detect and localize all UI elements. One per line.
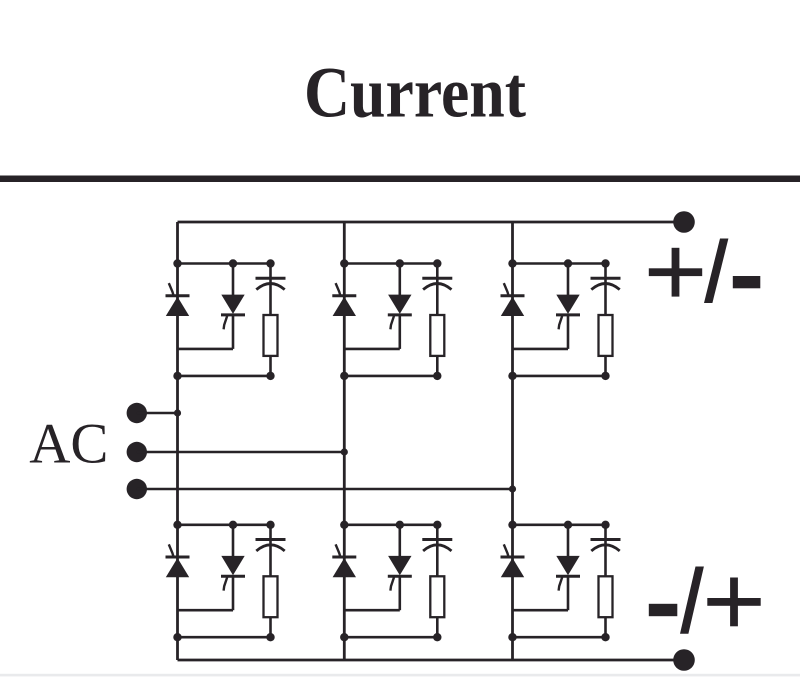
wire: negative DC rail (bottom) — [178, 659, 685, 662]
resistor cell 1 upper snubber R — [264, 315, 278, 356]
wire: cell 3 upper gate-side connector — [513, 348, 569, 351]
wire: cell 2 lower gate-side connector — [344, 609, 400, 612]
wire: cell 1 upper gate-side connector — [178, 348, 234, 351]
terminal AC phase 3 — [127, 479, 147, 499]
label "+/-" slash — [704, 239, 728, 304]
node cell 2 upper bottom bus left junction — [340, 372, 348, 380]
wire: cell 2 upper snubber lead (top) — [436, 264, 439, 316]
thyristor cell 1 lower left cathode bar — [166, 556, 190, 559]
thyristor cell 2 lower middle triangle — [388, 556, 411, 575]
node cell 1 upper top bus left junction — [173, 259, 181, 267]
thyristor cell 3 upper left cathode bar — [501, 294, 525, 297]
wire: cell 1 lower top bus — [178, 523, 271, 526]
node cell 3 upper top bus middle junction — [564, 259, 572, 267]
label "+/-" plus sign — [649, 268, 702, 276]
thyristor cell 2 upper left triangle — [333, 297, 356, 316]
wire: cell 1 upper top bus — [178, 262, 271, 265]
wire: cell 2 upper gate-side connector — [344, 348, 400, 351]
wire: cell 2 upper top bus — [344, 262, 437, 265]
label "-/+" plus sign — [707, 598, 760, 606]
node cell 1 lower top bus middle junction — [229, 521, 237, 529]
thyristor cell 3 upper middle triangle — [556, 295, 579, 314]
node AC phase 2 junction on leg 2 — [341, 448, 348, 455]
node cell 3 upper top bus left junction — [508, 259, 516, 267]
resistor cell 3 upper snubber R — [599, 315, 613, 356]
terminal DC top (+/-) — [673, 211, 695, 233]
thyristor cell 3 upper left (conducts up) gate — [504, 283, 509, 295]
thyristor cell 3 lower middle (conducts down) gate — [559, 577, 563, 590]
thyristor cell 2 lower left (conducts up) gate — [336, 544, 341, 556]
wire: cell 3 lower middle branch upper lead — [567, 525, 570, 557]
capacitor cell 2 lower snubber C plate — [422, 538, 452, 541]
wire: cell 1 upper bottom bus — [178, 375, 271, 378]
wire: cell 3 upper middle branch upper lead — [567, 264, 570, 296]
wire: cell 2 upper snubber R bottom lead — [436, 356, 439, 376]
node cell 2 lower top bus middle junction — [396, 521, 404, 529]
node cell 1 upper bottom bus right junction — [266, 372, 274, 380]
thyristor cell 2 upper middle cathode bar — [388, 313, 412, 316]
thyristor cell 3 lower left (conducts up) gate — [504, 544, 509, 556]
terminal AC phase 1 — [127, 403, 147, 423]
svg-text:AC: AC — [29, 413, 108, 476]
thyristor cell 1 lower middle (conducts down) gate — [224, 577, 228, 590]
wire: cell 1 lower snubber R bottom lead — [269, 617, 272, 637]
resistor cell 1 lower snubber R — [264, 576, 278, 617]
wire: cell 3 lower bottom bus — [513, 636, 606, 639]
label "+/-" minus sign — [733, 276, 761, 288]
thyristor cell 1 lower left (conducts up) gate — [169, 544, 174, 556]
resistor cell 2 upper snubber R — [430, 315, 444, 356]
node cell 3 lower top bus left junction — [508, 521, 516, 529]
thyristor cell 3 lower left cathode bar — [501, 556, 525, 559]
scan artifact band at bottom edge — [0, 674, 800, 677]
thyristor cell 3 upper middle (conducts down) gate — [559, 316, 563, 329]
wire: cell 1 lower middle branch lower lead — [232, 576, 235, 610]
wire: cell 2 upper middle branch upper lead — [398, 264, 401, 296]
wire: cell 1 upper snubber lead (top) — [269, 264, 272, 316]
thyristor cell 2 lower middle cathode bar — [388, 575, 412, 578]
capacitor cell 1 upper snubber C plate — [256, 277, 286, 280]
thyristor cell 1 lower middle triangle — [221, 556, 244, 575]
wire: cell 3 lower snubber R bottom lead — [604, 617, 607, 637]
thyristor cell 1 upper middle cathode bar — [221, 313, 245, 316]
wire: cell 1 lower bottom bus — [178, 636, 271, 639]
thyristor cell 3 upper left triangle — [501, 297, 524, 316]
thyristor cell 2 upper left cathode bar — [332, 294, 356, 297]
wire: cell 2 upper bottom bus — [344, 375, 437, 378]
wire: AC phase 2 line — [137, 451, 344, 454]
wire: phase leg 1 vertical — [176, 222, 179, 660]
resistor cell 3 lower snubber R — [599, 576, 613, 617]
label "-/+" minus sign — [649, 604, 678, 616]
wire: cell 1 upper snubber R bottom lead — [269, 356, 272, 376]
node cell 3 upper bottom bus right junction — [601, 372, 609, 380]
terminal DC bottom (-/+) — [673, 649, 695, 671]
thyristor cell 2 upper middle (conducts down) gate — [390, 316, 394, 329]
thyristor cell 2 upper left (conducts up) gate — [336, 283, 341, 295]
wire: cell 3 lower gate-side connector — [513, 609, 569, 612]
wire: cell 2 lower snubber lead (top) — [436, 525, 439, 577]
wire: cell 1 upper middle branch lower lead — [232, 315, 235, 349]
node cell 1 lower top bus left junction — [173, 521, 181, 529]
node AC phase 3 junction on leg 3 — [509, 485, 516, 492]
node cell 1 lower top bus right junction — [266, 521, 274, 529]
node cell 2 upper top bus middle junction — [396, 259, 404, 267]
capacitor cell 3 lower snubber C curved plate — [591, 545, 619, 551]
wire: cell 1 lower middle branch upper lead — [232, 525, 235, 557]
node cell 3 lower top bus middle junction — [564, 521, 572, 529]
capacitor cell 2 lower snubber C curved plate — [423, 545, 451, 551]
horizontal rule under title — [0, 176, 800, 183]
node cell 2 upper top bus right junction — [433, 259, 441, 267]
thyristor cell 3 lower middle cathode bar — [556, 575, 580, 578]
thyristor cell 3 upper middle cathode bar — [556, 313, 580, 316]
capacitor cell 3 lower snubber C plate — [591, 538, 621, 541]
wire: phase leg 2 vertical — [343, 222, 346, 660]
thyristor cell 1 upper middle (conducts down) gate — [224, 316, 228, 329]
thyristor cell 1 upper left cathode bar — [166, 294, 190, 297]
thyristor cell 2 lower left triangle — [333, 558, 356, 577]
node cell 1 upper top bus middle junction — [229, 259, 237, 267]
node cell 3 lower bottom bus right junction — [601, 633, 609, 641]
node cell 3 lower bottom bus left junction — [508, 633, 516, 641]
wire: cell 1 lower gate-side connector — [178, 609, 234, 612]
thyristor cell 1 lower left triangle — [166, 558, 189, 577]
capacitor cell 1 lower snubber C plate — [256, 538, 286, 541]
wire: AC phase 1 line — [137, 412, 178, 415]
thyristor cell 2 lower middle (conducts down) gate — [390, 577, 394, 590]
capacitor cell 1 upper snubber C curved plate — [256, 284, 284, 290]
wire: cell 2 lower middle branch lower lead — [398, 576, 401, 610]
label "-/+" slash — [680, 567, 704, 634]
thyristor cell 1 upper middle triangle — [221, 295, 244, 314]
wire: cell 3 lower top bus — [513, 523, 606, 526]
resistor cell 2 lower snubber R — [430, 576, 444, 617]
node cell 3 upper bottom bus left junction — [508, 372, 516, 380]
node cell 2 lower bottom bus right junction — [433, 633, 441, 641]
wire: cell 1 upper middle branch upper lead — [232, 264, 235, 296]
wire: cell 3 lower snubber lead (top) — [604, 525, 607, 577]
thyristor cell 1 lower middle cathode bar — [221, 575, 245, 578]
wire: cell 2 lower middle branch upper lead — [398, 525, 401, 557]
wire: cell 3 upper bottom bus — [513, 375, 606, 378]
node cell 1 upper top bus right junction — [266, 259, 274, 267]
node AC phase 1 junction on leg 1 — [174, 409, 181, 416]
node cell 2 lower top bus left junction — [340, 521, 348, 529]
node cell 2 upper bottom bus right junction — [433, 372, 441, 380]
thyristor cell 2 upper middle triangle — [388, 295, 411, 314]
wire: cell 3 lower middle branch lower lead — [567, 576, 570, 610]
node cell 3 lower top bus right junction — [601, 521, 609, 529]
thyristor cell 3 lower left triangle — [501, 558, 524, 577]
capacitor cell 2 upper snubber C plate — [422, 277, 452, 280]
node cell 2 upper top bus left junction — [340, 259, 348, 267]
wire: positive DC rail (top) — [178, 221, 685, 224]
node cell 3 upper top bus right junction — [601, 259, 609, 267]
wire: phase leg 3 vertical — [511, 222, 514, 660]
wire: cell 3 upper top bus — [513, 262, 606, 265]
wire: cell 3 upper snubber R bottom lead — [604, 356, 607, 376]
node cell 1 lower bottom bus right junction — [266, 633, 274, 641]
wire: cell 2 lower bottom bus — [344, 636, 437, 639]
thyristor cell 1 upper left triangle — [166, 297, 189, 316]
wire: cell 2 lower snubber R bottom lead — [436, 617, 439, 637]
capacitor cell 3 upper snubber C plate — [591, 277, 621, 280]
wire: cell 3 upper middle branch lower lead — [567, 315, 570, 349]
node cell 2 lower bottom bus left junction — [340, 633, 348, 641]
wire: cell 3 upper snubber lead (top) — [604, 264, 607, 316]
capacitor cell 1 lower snubber C curved plate — [256, 545, 284, 551]
terminal AC phase 2 — [127, 442, 147, 462]
node cell 2 lower top bus right junction — [433, 521, 441, 529]
wire: AC phase 3 line — [137, 488, 513, 491]
thyristor cell 1 upper left (conducts up) gate — [169, 283, 174, 295]
node cell 1 lower bottom bus left junction — [173, 633, 181, 641]
thyristor cell 2 lower left cathode bar — [332, 556, 356, 559]
thyristor cell 3 lower middle triangle — [556, 556, 579, 575]
node cell 1 upper bottom bus left junction — [173, 372, 181, 380]
capacitor cell 2 upper snubber C curved plate — [423, 284, 451, 290]
wire: cell 1 lower snubber lead (top) — [269, 525, 272, 577]
capacitor cell 3 upper snubber C curved plate — [591, 284, 619, 290]
wire: cell 2 upper middle branch lower lead — [398, 315, 401, 349]
svg-text:Current: Current — [304, 53, 526, 132]
wire: cell 2 lower top bus — [344, 523, 437, 526]
